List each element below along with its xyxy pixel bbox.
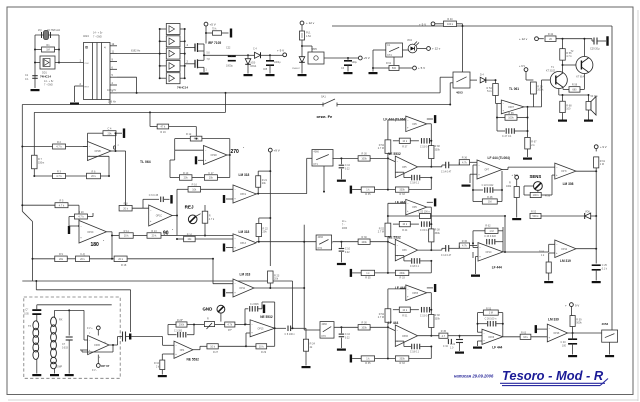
svg-text:R 11: R 11 [124,230,130,233]
svg-text:1M: 1M [46,49,49,52]
svg-text:200k: 200k [179,324,185,327]
svg-text:100k: 100k [508,117,514,120]
svg-text:9 V -: 9 V - [92,369,97,372]
svg-text:C 27 0.1: C 27 0.1 [502,135,512,138]
svg-text:20 k: 20 k [91,175,96,178]
svg-text:1 M: 1 M [489,312,493,315]
svg-text:LF 444: LF 444 [395,286,406,290]
svg-text:R 52: R 52 [531,210,537,213]
svg-text:REJ: REJ [185,205,194,210]
svg-text:C 2 B45: C 2 B45 [250,303,259,306]
svg-text:100µ: 100µ [352,61,358,64]
svg-text:10 k: 10 k [402,223,407,226]
svg-text:+ 12 v: + 12 v [306,21,315,25]
svg-text:OP19: OP19 [240,194,247,196]
svg-text:74HC14: 74HC14 [40,75,51,79]
svg-text:C29 20µ: C29 20µ [590,48,600,51]
svg-text:47 k: 47 k [161,126,166,129]
svg-text:0.1 k: 0.1 k [602,268,608,271]
svg-text:10 k: 10 k [402,309,407,312]
svg-text:20 k: 20 k [80,258,85,261]
svg-text:C 18 0.1: C 18 0.1 [410,182,420,185]
svg-text:C-Q: C-Q [80,253,85,256]
svg-text:KT2: KT2 [318,247,323,250]
svg-text:4.7k: 4.7k [227,324,232,327]
svg-text:4066: 4066 [318,236,324,239]
svg-text:4.7 k: 4.7 k [56,175,62,178]
svg-text:откл. Fe: откл. Fe [317,114,334,119]
svg-text:R 29: R 29 [261,351,267,354]
svg-text:500: 500 [392,67,397,70]
svg-text:100 k: 100 k [447,23,454,26]
svg-text:+ 9 V: + 9 V [277,49,284,53]
svg-text:R 42: R 42 [548,33,554,36]
svg-text:VD6: VD6 [585,210,590,213]
svg-text:1000µ: 1000µ [274,62,281,64]
svg-text:4.7: 4.7 [442,335,446,338]
svg-text:R 51: R 51 [402,315,408,318]
svg-text:10 k: 10 k [210,345,215,348]
svg-text:OP9: OP9 [402,250,407,252]
svg-text:R: R [207,318,209,321]
svg-text:OP1C: OP1C [156,216,163,218]
svg-text:R 16: R 16 [187,233,193,236]
svg-text:R 36: R 36 [462,157,468,160]
svg-text:OP1B: OP1B [95,151,102,153]
svg-text:R 16: R 16 [192,184,198,187]
svg-text:C 6 0.45: C 6 0.45 [149,194,159,197]
svg-text:OP05: OP05 [412,293,419,295]
svg-text:OP10: OP10 [486,252,493,254]
svg-text:OP12: OP12 [561,249,568,251]
svg-text:+ 9 V: + 9 V [600,145,607,149]
svg-text:OP11: OP11 [239,288,245,290]
svg-text:R 5: R 5 [60,200,65,203]
svg-text:4066: 4066 [322,323,328,326]
svg-text:OP15: OP15 [257,328,264,330]
svg-text:C 14 0.47: C 14 0.47 [441,254,452,257]
svg-text:+5 V: +5 V [210,22,216,26]
svg-text:330k: 330k [399,358,405,361]
svg-text:написан 29.09.2006: написан 29.09.2006 [454,374,494,379]
svg-text:C22: C22 [226,47,231,50]
svg-text:20 k: 20 k [118,258,123,261]
svg-text:R 63: R 63 [521,332,527,335]
svg-text:4.7 k: 4.7 k [56,146,62,149]
svg-text:OP 8: OP 8 [561,171,567,173]
svg-text:2.7 M: 2.7 M [378,231,384,234]
svg-text:KT4: KT4 [387,54,392,57]
svg-text:330k: 330k [399,272,405,275]
svg-text:C 18 0.1: C 18 0.1 [410,351,420,354]
svg-text:C 4: C 4 [253,48,257,51]
svg-text:NE 5532: NE 5532 [388,235,401,239]
svg-text:C 3 200: C 3 200 [174,331,183,333]
svg-text:33 k: 33 k [523,336,528,339]
svg-text:LM 339: LM 339 [548,317,559,321]
svg-text:KT0: KT0 [322,335,327,338]
svg-text:50 Om: 50 Om [591,95,598,98]
svg-text:0.1: 0.1 [25,78,29,81]
svg-text:4.7 k: 4.7 k [78,216,84,219]
svg-text:+: + [565,304,567,308]
svg-text:SENS: SENS [530,174,542,179]
svg-text:7 -: 7 - [342,225,345,227]
svg-text:LF 444: LF 444 [388,321,399,325]
svg-text:R 35: R 35 [365,193,371,196]
svg-text:R 36: R 36 [462,240,468,243]
svg-text:OP06: OP06 [402,336,409,338]
svg-text:OP2C: OP2C [87,232,94,234]
svg-text:R 40: R 40 [447,18,453,21]
svg-text:0.033: 0.033 [62,348,68,350]
svg-text:+9 V: +9 V [274,148,280,152]
svg-text:330k: 330k [435,318,441,321]
svg-text:R 12: R 12 [186,133,192,136]
svg-text:10 k: 10 k [402,140,407,143]
svg-text:2.7 M: 2.7 M [378,147,384,150]
svg-text:R 30: R 30 [361,236,367,239]
svg-text:+ 12 v: + 12 v [519,37,528,41]
svg-text:0.22: 0.22 [345,168,350,171]
svg-text:7805: 7805 [311,47,317,51]
svg-text:OP13: OP13 [240,243,247,245]
svg-text:20 k: 20 k [152,235,157,238]
svg-text:20 k: 20 k [124,235,129,238]
svg-text:1000µ: 1000µ [226,65,233,68]
svg-text:R 13: R 13 [151,230,157,233]
svg-text:1M: 1M [488,201,491,204]
svg-text:330k: 330k [435,149,441,152]
svg-text:TX: TX [28,325,32,328]
svg-text:LF 444 (TL064): LF 444 (TL064) [488,156,510,160]
svg-text:R 6: R 6 [92,170,97,173]
svg-text:R 48: R 48 [487,196,493,199]
svg-text:32,768 kHz: 32,768 kHz [47,28,61,32]
svg-text:LM 308: LM 308 [563,182,574,186]
svg-text:C 18 0.1: C 18 0.1 [410,265,420,268]
svg-text:OP28: OP28 [553,333,560,335]
svg-text:R 35: R 35 [365,362,371,365]
svg-text:R 45: R 45 [441,330,447,333]
svg-text:500 k: 500 k [532,215,539,218]
svg-text:4.7 k: 4.7 k [209,218,215,221]
svg-text:0.22: 0.22 [345,337,350,340]
svg-text:OP26: OP26 [94,345,101,347]
svg-text:256 Hz: 256 Hz [108,101,117,104]
svg-text:CLK: CLK [85,63,90,65]
svg-text:C 23 0.022: C 23 0.022 [484,235,496,238]
svg-text:+ 9 V: + 9 V [419,23,426,27]
svg-text:4024: 4024 [83,34,89,38]
svg-text:4.7k: 4.7k [462,161,467,164]
svg-text:R7*: R7* [228,330,232,332]
svg-text:7 - GND: 7 - GND [44,84,53,87]
svg-text:14 - + 5v: 14 - + 5v [93,32,103,35]
svg-text:0.22: 0.22 [345,251,350,254]
svg-text:4053: 4053 [456,91,463,95]
svg-text:C 17: C 17 [208,172,214,175]
svg-text:OP2D: OP2D [211,155,218,157]
svg-text:200 k: 200 k [537,89,544,92]
svg-text:10 k: 10 k [259,345,264,348]
svg-text:LF 444: LF 444 [395,201,406,205]
svg-text:C*: C* [25,309,28,312]
svg-text:OP 07: OP 07 [101,364,110,368]
svg-text:C05: C05 [263,69,268,71]
svg-text:R 62: R 62 [485,225,491,228]
svg-text:LF 444: LF 444 [492,266,502,270]
svg-text:KT 814: KT 814 [576,76,584,79]
svg-text:1N4007: 1N4007 [292,68,300,70]
svg-text:TL 064: TL 064 [140,160,151,164]
svg-text:C 26 100 n: C 26 100 n [485,318,497,321]
svg-text:OP9: OP9 [412,207,417,209]
svg-text:LF 444: LF 444 [492,346,502,350]
svg-text:8192 Hz: 8192 Hz [131,50,141,53]
svg-text:C 22 0.022: C 22 0.022 [482,184,494,187]
svg-text:20 k: 20 k [123,207,128,210]
svg-text:74HC14: 74HC14 [177,85,188,89]
svg-text:R 59: R 59 [572,84,578,87]
svg-text:100k: 100k [506,185,512,188]
svg-text:NE 5532: NE 5532 [187,358,200,362]
svg-text:R 20: R 20 [78,211,84,214]
svg-text:C 14 0.47: C 14 0.47 [441,171,452,174]
svg-text:R 33: R 33 [399,362,405,365]
svg-text:R 30: R 30 [361,153,367,156]
svg-text:OP4: OP4 [180,350,185,352]
svg-text:LF 444 (TL064): LF 444 (TL064) [383,117,406,121]
svg-text:100 k: 100 k [533,194,540,197]
svg-text:14 +: 14 + [342,221,347,223]
svg-text:R 33: R 33 [399,276,405,279]
svg-text:LM 318: LM 318 [240,272,251,276]
svg-text:LM 319: LM 319 [560,259,571,263]
svg-text:2.7 M: 2.7 M [378,316,384,319]
svg-text:1024 Hz: 1024 Hz [107,89,117,92]
svg-text:ZQ: ZQ [38,28,42,32]
svg-text:NE 5532: NE 5532 [388,152,401,156]
svg-text:4066: 4066 [314,151,320,154]
svg-text:150m: 150m [38,162,44,165]
svg-text:+ 12 v: + 12 v [432,47,441,51]
svg-text:R 53: R 53 [486,308,492,311]
svg-text:VD4: VD4 [407,39,412,42]
svg-text:R 44: R 44 [402,229,408,232]
svg-text:C 52 100 n: C 52 100 n [418,210,430,213]
svg-text:GND: GND [203,307,213,312]
svg-text:C 34: C 34 [443,346,449,348]
svg-text:100k: 100k [361,158,367,161]
svg-text:0.05: 0.05 [24,314,29,316]
svg-text:NE 5532: NE 5532 [260,315,273,319]
svg-text:D814: D814 [251,65,257,68]
svg-text:R 35: R 35 [365,276,371,279]
svg-text:R 26*: R 26* [177,319,183,322]
svg-text:+ 9 V: + 9 V [519,64,525,68]
svg-text:680: 680 [572,89,577,92]
svg-text:KT1: KT1 [314,163,319,166]
svg-text:OP7: OP7 [485,170,490,172]
svg-text:1 M: 1 M [489,230,493,233]
svg-text:4.7 k: 4.7 k [566,55,572,58]
svg-text:100: 100 [562,345,567,348]
svg-text:C 8 100 n: C 8 100 n [285,333,296,336]
svg-text:51 k: 51 k [487,90,492,93]
svg-text:330k: 330k [399,189,405,192]
svg-text:100k: 100k [361,326,367,329]
svg-text:4.7 k: 4.7 k [59,204,65,207]
svg-text:+5 V: +5 V [364,56,370,60]
svg-text:IRF 7105: IRF 7105 [208,41,221,45]
svg-text:RX: RX [59,319,63,322]
svg-text:R 30: R 30 [361,322,367,325]
svg-text:OP5: OP5 [402,167,407,169]
svg-text:Tesoro - Mod - R: Tesoro - Mod - R [502,368,604,383]
svg-text:9 V: 9 V [575,304,579,308]
svg-text:R 19: R 19 [160,131,166,134]
svg-text:D 4: D 4 [480,74,484,77]
svg-text:R 3: R 3 [57,171,62,174]
svg-text:SA1: SA1 [321,96,326,99]
svg-text:LM 318: LM 318 [239,230,250,234]
svg-text:R 61: R 61 [386,62,392,65]
svg-text:OP27: OP27 [508,107,515,109]
svg-text:R 8: R 8 [124,202,129,205]
svg-text:R 9: R 9 [59,253,64,256]
svg-text:R 65: R 65 [508,112,514,115]
svg-text:LM 318: LM 318 [239,173,250,177]
svg-text:R 33: R 33 [399,193,405,196]
svg-text:R 18: R 18 [121,264,127,267]
svg-text:1.5A: 1.5A [306,35,311,38]
svg-text:7 - GND: 7 - GND [93,36,102,39]
svg-text:R 34: R 34 [154,363,160,365]
svg-text:R 27: R 27 [213,351,219,354]
svg-text:OP6: OP6 [412,124,417,126]
svg-text:4.7k: 4.7k [462,245,467,248]
svg-text:KT 3102: KT 3102 [546,70,556,73]
svg-text:+ 5 V: + 5 V [418,66,425,70]
svg-text:100: 100 [566,108,571,111]
svg-text:100k: 100k [361,241,367,244]
svg-text:270: 270 [231,149,240,155]
svg-text:C 4: C 4 [108,128,113,131]
svg-text:TL 061: TL 061 [509,87,519,91]
svg-text:COMP: COMP [55,366,62,368]
svg-text:R 10: R 10 [183,172,189,175]
svg-text:1 M: 1 M [600,163,604,166]
svg-text:R 2: R 2 [57,141,62,144]
svg-text:330k: 330k [435,232,441,235]
svg-text:9 V +: 9 V + [87,327,93,330]
svg-text:180: 180 [91,242,100,248]
svg-text:4066: 4066 [342,228,348,230]
svg-text:4053: 4053 [602,322,609,326]
svg-text:500k: 500k [576,322,582,325]
svg-text:RST: RST [85,87,90,89]
svg-text:OP26: OP26 [488,337,495,339]
svg-text:R 37: R 37 [402,146,408,149]
